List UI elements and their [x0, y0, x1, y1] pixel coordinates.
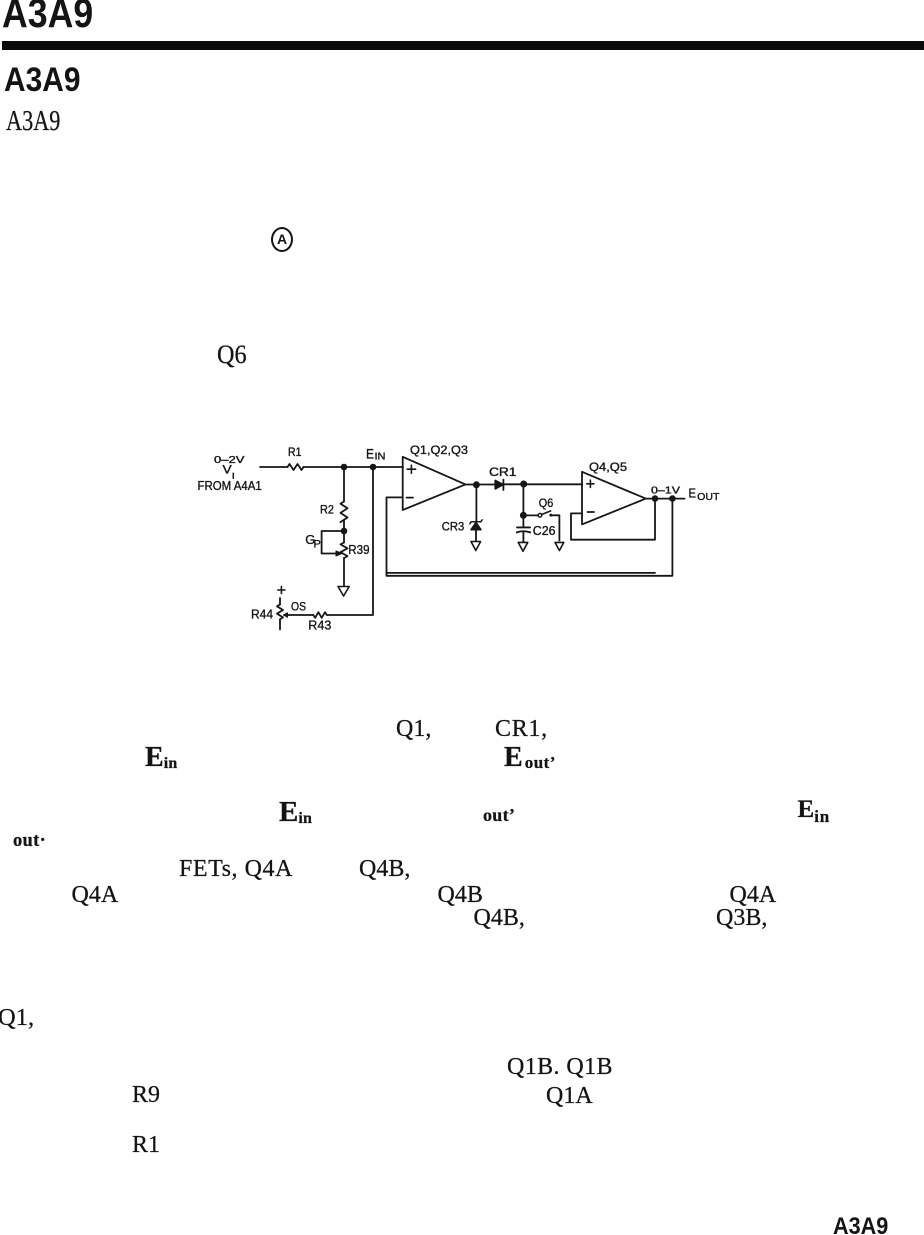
resistor R43 — [313, 612, 326, 618]
svg-text:Q4,Q5: Q4,Q5 — [589, 462, 627, 474]
svg-text:Q1,Q2,Q3: Q1,Q2,Q3 — [410, 445, 468, 457]
text fragment Ein — [145, 744, 177, 772]
zener diode CR3 — [470, 520, 482, 524]
op-amp U2 minus sign — [588, 511, 595, 513]
resistor R39 — [341, 543, 348, 559]
paragraph word A3A9 — [6, 108, 60, 136]
node op-amp U2 output — [652, 495, 659, 502]
ground below C26 — [518, 542, 528, 551]
text fragment Q1, 2 — [0, 1006, 34, 1031]
svg-text:R1: R1 — [288, 447, 302, 459]
wire R43 to R44 wiper — [288, 614, 313, 616]
op-amp U2 Q4,Q5 — [582, 472, 646, 525]
capacitor C26 — [517, 526, 530, 528]
node EIN — [370, 464, 377, 471]
text fragment Q1, — [396, 717, 431, 741]
paragraph word Q6 — [217, 342, 247, 368]
wire CR3 branch — [475, 485, 477, 521]
wire C26 branch — [522, 484, 524, 526]
long feedback wire — [387, 499, 673, 576]
node after CR1 — [520, 481, 527, 488]
resistor R1 — [288, 464, 304, 470]
svg-text:OUT: OUT — [697, 491, 720, 503]
Gp wiper arrow head — [336, 551, 342, 556]
node op-amp U1 output — [473, 481, 480, 488]
text fragment Ein 2 — [279, 798, 312, 827]
R44 wiper arrow — [285, 614, 288, 617]
text fragment Q4B, — [359, 857, 410, 881]
R44 plus mark — [278, 587, 285, 594]
text fragment Ein 3 — [798, 797, 830, 822]
text fragment CR1, — [495, 717, 548, 741]
wire CR1 to op-amp U2 — [503, 483, 582, 485]
text fragment out' — [483, 806, 515, 824]
svg-text:E: E — [689, 485, 697, 500]
wire op-amp U2 output — [646, 498, 685, 500]
footer A3A9 — [833, 1215, 888, 1235]
svg-text:P: P — [314, 538, 321, 550]
text fragment Q4A 1 — [72, 883, 119, 907]
wire op-amp U1 output — [466, 484, 496, 486]
svg-text:R39: R39 — [348, 543, 369, 557]
potentiometer R44 — [279, 598, 281, 605]
node at R2 branch — [341, 464, 348, 471]
svg-text:R43: R43 — [308, 619, 331, 633]
switch Q6 — [527, 514, 538, 516]
diode CR1 — [495, 481, 503, 489]
section heading A3A9 — [4, 63, 81, 97]
node EOUT tap — [669, 495, 676, 502]
page header title A3A9 — [2, 0, 93, 34]
svg-text:R44: R44 — [251, 607, 273, 621]
op-amp U1 plus sign — [407, 465, 415, 473]
svg-text:V: V — [223, 463, 232, 477]
text fragment R1 — [132, 1133, 160, 1157]
node R2/R39 — [341, 528, 348, 535]
ground below Q6 — [555, 542, 564, 550]
wire EIN down branch — [328, 467, 374, 615]
svg-text:IN: IN — [375, 452, 386, 463]
svg-text:OS: OS — [291, 600, 306, 614]
svg-text:R2: R2 — [320, 502, 334, 516]
text fragment out. — [13, 832, 46, 851]
header rule — [2, 41, 924, 50]
svg-text:Q6: Q6 — [539, 498, 554, 510]
op-amp U1 minus sign — [407, 497, 414, 499]
text fragment Q4B 2 — [438, 883, 483, 907]
svg-text:CR1: CR1 — [489, 465, 517, 479]
wire R2 branch — [343, 467, 345, 502]
text fragment FETs, Q4A — [179, 857, 293, 881]
text fragment Q1A — [546, 1084, 593, 1108]
text fragment R9 — [132, 1083, 160, 1107]
text fragment Eout' — [504, 744, 556, 772]
svg-text:0–1V: 0–1V — [651, 484, 680, 496]
op-amp U2 feedback loop — [571, 499, 655, 540]
wire R1 to op-amp U1 — [304, 466, 404, 468]
node C26/Q6 junction — [520, 512, 527, 519]
text fragment Q1B. Q1B — [507, 1055, 613, 1079]
op-amp U2 plus sign — [587, 480, 594, 487]
ground below R39 — [338, 587, 349, 597]
circled A callout — [271, 227, 293, 252]
svg-text:E: E — [366, 446, 374, 462]
text fragment Q4B, 2 — [474, 906, 525, 930]
wire input from A4A1 — [260, 466, 288, 468]
svg-text:C26: C26 — [533, 524, 556, 538]
text fragment Q4A 2 — [730, 883, 777, 907]
text fragment Q3B, — [716, 906, 767, 930]
op-amp U1 Q1,Q2,Q3 — [403, 457, 466, 510]
ground below CR3 — [471, 542, 481, 551]
Gp wiper loop — [322, 531, 344, 554]
resistor R2 — [341, 502, 348, 523]
svg-text:CR3: CR3 — [442, 519, 465, 533]
svg-text:FROM A4A1: FROM A4A1 — [198, 479, 262, 493]
